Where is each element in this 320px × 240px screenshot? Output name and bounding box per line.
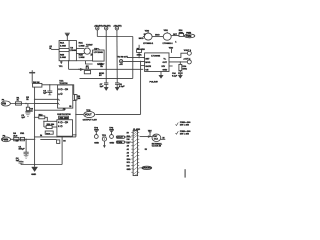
svg-text:TLV2736: TLV2736 <box>59 83 68 85</box>
svg-text:PWM: PWM <box>186 33 191 35</box>
svg-text:LTC6992-1: LTC6992-1 <box>163 43 174 45</box>
svg-text:1.00M: 1.00M <box>79 57 85 59</box>
svg-text:100pF: 100pF <box>19 149 26 151</box>
svg-text:J1 ARD: J1 ARD <box>133 128 141 131</box>
svg-text:A3: A3 <box>127 155 129 158</box>
svg-text:GND: GND <box>110 142 115 144</box>
svg-text:POL/DIV: POL/DIV <box>150 82 159 84</box>
svg-text:PWM: PWM <box>2 139 8 142</box>
svg-text:A1: A1 <box>127 148 129 151</box>
svg-text:1.00M: 1.00M <box>79 45 85 47</box>
svg-text:PWM: PWM <box>186 36 192 38</box>
svg-text:0.1µF: 0.1µF <box>172 75 178 77</box>
svg-text:A2: A2 <box>127 151 129 154</box>
svg-text:VOUT: VOUT <box>117 137 124 139</box>
svg-text:1µF: 1µF <box>100 86 104 88</box>
svg-text:GATE: GATE <box>145 65 151 68</box>
svg-text:1M: 1M <box>78 98 81 100</box>
svg-text:OUT: OUT <box>163 62 168 64</box>
svg-text:LTC2063: LTC2063 <box>94 52 104 54</box>
svg-text:+OUT 4: +OUT 4 <box>183 57 191 60</box>
svg-text:VDD: VDD <box>145 30 150 32</box>
svg-text:R8 1M: R8 1M <box>33 82 40 84</box>
svg-text:MOD: MOD <box>139 38 144 40</box>
svg-text:LTC6992-1: LTC6992-1 <box>143 43 154 45</box>
svg-text:VDD: VDD <box>164 30 169 32</box>
svg-text:LTC6992: LTC6992 <box>151 55 161 57</box>
svg-text:A0: A0 <box>127 145 129 148</box>
svg-text:R1A: R1A <box>60 42 65 45</box>
svg-text:DIV = 256: DIV = 256 <box>180 125 190 127</box>
svg-text:GND: GND <box>31 174 36 176</box>
svg-text:TO RS OUT: TO RS OUT <box>118 56 129 58</box>
svg-text:–: – <box>59 104 60 106</box>
svg-text:CLOCK IN: CLOCK IN <box>152 146 162 148</box>
svg-text:IO9: IO9 <box>127 142 130 144</box>
svg-text:+5V (5V): +5V (5V) <box>113 25 122 27</box>
svg-text:+5V (5V): +5V (5V) <box>102 25 111 27</box>
svg-text:GND: GND <box>94 142 99 144</box>
svg-text:VOUT: VOUT <box>85 114 92 117</box>
svg-text:VDD: VDD <box>169 47 174 49</box>
svg-text:1.00M: 1.00M <box>60 57 66 59</box>
svg-text:OUTPUT 0-5V: OUTPUT 0-5V <box>83 120 98 122</box>
svg-text:R11 100k: R11 100k <box>60 117 70 119</box>
svg-text:IO8: IO8 <box>127 139 130 141</box>
svg-text:GND: GND <box>163 70 168 72</box>
svg-text:ARDUINO: ARDUINO <box>142 167 151 170</box>
svg-text:3V3: 3V3 <box>127 136 130 138</box>
svg-text:VDD: VDD <box>141 49 146 51</box>
svg-text:100k: 100k <box>137 54 143 56</box>
svg-text:+: + <box>59 99 60 101</box>
svg-text:GND: GND <box>94 130 99 132</box>
svg-text:R2A: R2A <box>79 42 84 45</box>
svg-text:LT5400: LT5400 <box>70 49 78 52</box>
svg-text:DIV: DIV <box>162 66 166 68</box>
svg-text:MOD: MOD <box>155 34 160 36</box>
svg-text:MOD: MOD <box>145 62 150 64</box>
svg-text:VOUT 4: VOUT 4 <box>184 49 192 52</box>
svg-text:VIN: VIN <box>2 103 6 106</box>
svg-text:1.00M: 1.00M <box>60 45 66 47</box>
svg-text:TLV237: TLV237 <box>86 45 93 47</box>
svg-text:TLV2736: TLV2736 <box>62 114 72 116</box>
svg-text:0.1µF: 0.1µF <box>119 86 125 88</box>
svg-text:CLK: CLK <box>154 139 159 141</box>
svg-text:PWM: PWM <box>117 142 122 144</box>
svg-text:GND: GND <box>127 169 132 171</box>
svg-text:R10 10k: R10 10k <box>47 124 55 126</box>
svg-text:GND: GND <box>109 130 114 132</box>
svg-text:IO2: IO2 <box>127 166 130 168</box>
svg-text:DIV = 256: DIV = 256 <box>180 133 190 135</box>
